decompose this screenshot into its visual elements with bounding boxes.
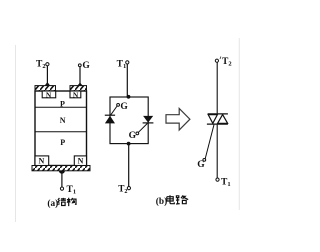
- solder joint G contact: [77, 83, 82, 86]
- thyristor V1 triangle: [105, 116, 115, 124]
- svg-text:(b): (b): [156, 196, 167, 207]
- wire bottom contact to T1: [61, 171, 63, 187]
- thyristor V2 triangle: [143, 116, 153, 123]
- solder joint T2 contact: [45, 82, 51, 86]
- svg-text:N: N: [60, 116, 66, 125]
- svg-text:P: P: [60, 138, 65, 147]
- triac right triangle: [218, 115, 228, 124]
- structure body outline: [35, 91, 87, 166]
- gate wire (symbol): [205, 125, 214, 159]
- stray tick before T2: [219, 57, 222, 60]
- svg-text:(a): (a): [47, 198, 58, 209]
- thyristor V2 gate wire: [138, 123, 147, 132]
- thyristor V2 gate circle: [136, 132, 139, 135]
- wire T1 to box top: [126, 64, 128, 97]
- wire T2 to top metal contact: [46, 66, 48, 85]
- triac left triangle: [208, 115, 217, 124]
- terminal T1 circle (circuit): [126, 61, 129, 64]
- bottom-right N region box: [74, 156, 86, 166]
- triac top bar: [208, 113, 228, 115]
- top-right N region box: [70, 91, 81, 98]
- thyristor V1 gate circle: [117, 104, 120, 107]
- svg-text:N: N: [78, 156, 84, 165]
- node junction top: [127, 95, 131, 99]
- caption (a) jiegou: [47, 198, 76, 209]
- triac bottom bar: [207, 123, 228, 125]
- gate circle (symbol): [203, 159, 206, 162]
- svg-text:P: P: [60, 99, 65, 108]
- svg-text:G: G: [120, 102, 128, 112]
- svg-text:G: G: [82, 61, 90, 71]
- top-left N region box: [42, 91, 56, 98]
- junction line P/N: [35, 106, 87, 108]
- solder joint T1 contact: [59, 171, 65, 174]
- terminal T1 circle (symbol): [216, 178, 219, 181]
- terminal T2 circle (structure): [46, 63, 49, 66]
- thyristor V2 cathode bar: [143, 122, 154, 124]
- top-left metal contact (hatched): [35, 86, 56, 91]
- glyph jie: [58, 198, 66, 206]
- wire T2 to triac: [216, 62, 218, 113]
- wire G to top metal contact: [79, 67, 81, 85]
- glyph dian: [167, 195, 175, 204]
- block arrow: [166, 108, 190, 130]
- circuit box: [110, 97, 148, 144]
- svg-text:N: N: [39, 156, 45, 165]
- thyristor V1 cathode bar: [105, 114, 115, 116]
- svg-text:G: G: [197, 160, 205, 170]
- terminal T1 circle (structure): [60, 187, 63, 190]
- glyph lu: [176, 195, 188, 204]
- svg-text:G: G: [129, 131, 137, 141]
- top-right metal contact (hatched): [70, 86, 87, 91]
- junction line N/P: [35, 131, 87, 133]
- wire triac to T1: [216, 125, 218, 178]
- wire box bottom to T2: [128, 144, 130, 187]
- faint scan border line right: [238, 38, 240, 210]
- caption (b) dianlu: [156, 195, 188, 207]
- glyph gou: [67, 198, 76, 206]
- svg-text:N: N: [73, 90, 79, 99]
- faint scan border line left: [15, 45, 17, 222]
- terminal G circle (structure): [78, 64, 81, 67]
- terminal T2 circle (symbol): [215, 59, 218, 62]
- terminal T2 circle (circuit): [127, 187, 130, 190]
- svg-text:N: N: [46, 90, 52, 99]
- node junction bottom: [127, 142, 131, 146]
- bottom metal contact (hatched): [32, 166, 90, 171]
- bottom-left N region box: [35, 156, 49, 166]
- thyristor V1 gate wire: [111, 106, 117, 115]
